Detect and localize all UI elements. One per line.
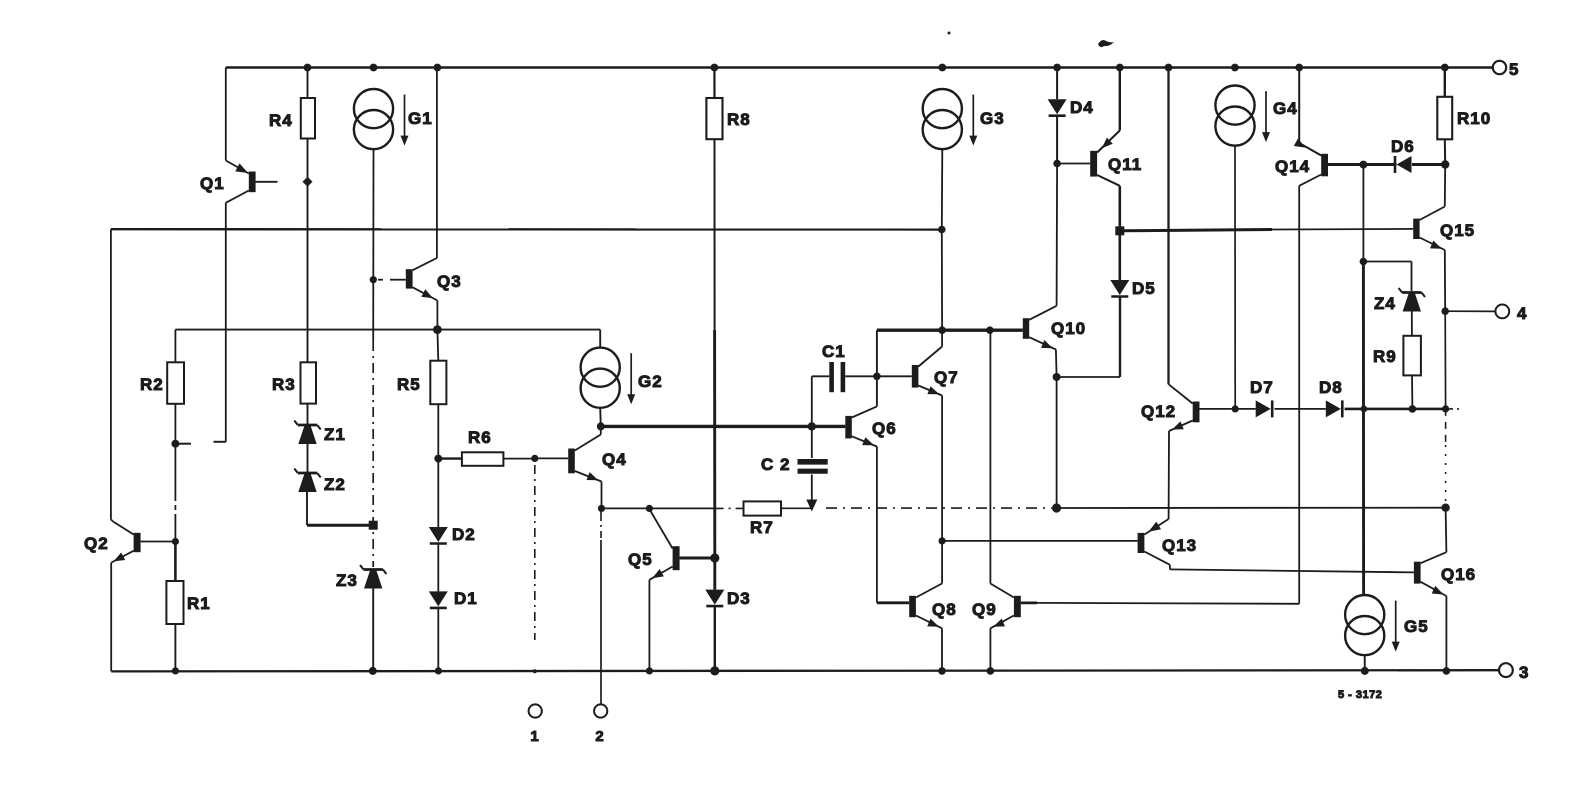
svg-text:Q11: Q11: [1108, 155, 1142, 174]
svg-text:G2: G2: [638, 372, 663, 391]
svg-text:Q9: Q9: [972, 600, 997, 619]
svg-text:4: 4: [1517, 304, 1527, 323]
svg-text:D7: D7: [1250, 378, 1274, 397]
svg-text:1: 1: [530, 728, 539, 745]
svg-text:Q12: Q12: [1141, 402, 1176, 421]
svg-text:Z4: Z4: [1374, 294, 1396, 313]
svg-text:G3: G3: [980, 109, 1005, 128]
svg-text:G4: G4: [1273, 99, 1298, 118]
svg-text:Q3: Q3: [437, 272, 462, 291]
svg-text:D8: D8: [1319, 378, 1343, 397]
svg-text:R2: R2: [140, 375, 164, 394]
svg-text:Z1: Z1: [324, 425, 346, 444]
svg-text:Z3: Z3: [336, 571, 358, 590]
svg-text:G5: G5: [1404, 617, 1429, 636]
svg-text:R3: R3: [272, 375, 296, 394]
svg-text:Q14: Q14: [1275, 157, 1310, 176]
svg-text:Q10: Q10: [1051, 319, 1086, 338]
svg-text:R9: R9: [1373, 347, 1397, 366]
svg-text:Q4: Q4: [602, 450, 627, 469]
svg-text:Q1: Q1: [200, 174, 225, 193]
svg-text:Z2: Z2: [324, 475, 346, 494]
svg-text:D5: D5: [1132, 279, 1156, 298]
svg-text:R4: R4: [269, 111, 293, 130]
svg-text:C1: C1: [822, 342, 846, 361]
svg-text:D6: D6: [1391, 137, 1415, 156]
svg-text:R6: R6: [468, 428, 492, 447]
svg-text:R5: R5: [397, 375, 421, 394]
svg-text:D2: D2: [452, 525, 476, 544]
svg-text:R1: R1: [187, 594, 211, 613]
svg-text:Q2: Q2: [84, 534, 109, 553]
svg-text:R8: R8: [727, 110, 751, 129]
svg-text:Q7: Q7: [934, 368, 959, 387]
svg-text:D1: D1: [454, 589, 478, 608]
svg-text:Q16: Q16: [1441, 565, 1476, 584]
svg-text:Q5: Q5: [628, 550, 653, 569]
svg-text:2: 2: [595, 728, 604, 745]
svg-text:5 - 3172: 5 - 3172: [1338, 689, 1382, 701]
svg-text:R10: R10: [1457, 109, 1491, 128]
svg-text:Q6: Q6: [872, 419, 897, 438]
svg-text:Q8: Q8: [932, 600, 957, 619]
svg-text:3: 3: [1519, 663, 1529, 682]
svg-text:Q13: Q13: [1162, 536, 1197, 555]
svg-text:G1: G1: [408, 109, 433, 128]
svg-text:D4: D4: [1070, 98, 1094, 117]
svg-text:C 2: C 2: [761, 455, 790, 474]
svg-text:Q15: Q15: [1440, 221, 1475, 240]
svg-text:D3: D3: [727, 589, 751, 608]
svg-text:5: 5: [1509, 60, 1519, 79]
svg-text:R7: R7: [750, 518, 774, 537]
